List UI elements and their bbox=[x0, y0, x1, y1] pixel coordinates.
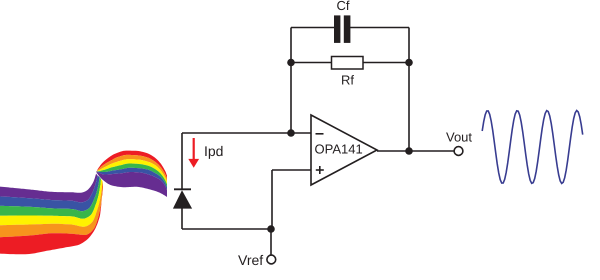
node junction output bbox=[405, 147, 413, 155]
svg-text:Ipd: Ipd bbox=[204, 143, 223, 159]
wire: feedback left vertical bbox=[290, 28, 292, 134]
wire: Rf row left bbox=[291, 62, 332, 64]
current arrow Ipd bbox=[188, 138, 199, 168]
rainbow lower band purple bbox=[0, 174, 98, 203]
terminal Vref open circle bbox=[267, 255, 276, 264]
capacitor C f plate left bbox=[334, 15, 340, 43]
wire: top rail left of Cf bbox=[291, 27, 335, 29]
rainbow lower band red bbox=[0, 184, 103, 254]
wire: output bbox=[377, 150, 454, 152]
node junction bottom bbox=[267, 225, 275, 233]
wire: plus input vertical bbox=[271, 170, 273, 229]
svg-text:Rf: Rf bbox=[341, 73, 354, 88]
resistor Rf bbox=[332, 57, 364, 70]
wire: plus input horizontal bbox=[272, 169, 311, 171]
svg-text:Cf: Cf bbox=[337, 0, 350, 13]
op-amp U1 OPA141 bbox=[311, 115, 377, 185]
rainbow light beam bbox=[0, 151, 167, 255]
rainbow lower band blue bbox=[0, 176, 100, 212]
rainbow upper band red bbox=[97, 151, 168, 179]
node junction minus input bbox=[287, 129, 295, 137]
rainbow upper band purple bbox=[96, 172, 167, 198]
wire: right vertical bbox=[408, 28, 410, 152]
op-amp plus sign bbox=[316, 169, 324, 171]
wire: minus input horizontal bbox=[182, 132, 311, 134]
wire: top rail right of Cf bbox=[350, 27, 409, 29]
wire: bottom horizontal bbox=[182, 228, 271, 230]
rainbow lower band yellow bbox=[0, 179, 103, 227]
op-amp minus sign bbox=[316, 133, 324, 135]
rainbow upper band orange bbox=[97, 155, 168, 182]
rainbow lower band orange bbox=[0, 181, 103, 237]
wire: Rf row right bbox=[363, 62, 409, 64]
capacitor Cf plate right bbox=[344, 15, 351, 43]
wire: photodiode bottom bbox=[181, 208, 183, 229]
node junction right of Rf bbox=[405, 59, 413, 67]
svg-text:Vout: Vout bbox=[446, 130, 472, 145]
svg-text:Vref: Vref bbox=[238, 252, 263, 268]
rainbow lower band green bbox=[0, 177, 101, 219]
wire: Vref stub bbox=[270, 229, 272, 255]
svg-text:OPA141: OPA141 bbox=[315, 142, 363, 157]
photodiode D1 triangle bbox=[173, 190, 192, 208]
node junction left of Rf bbox=[287, 59, 295, 67]
photodiode D1 cathode bar bbox=[174, 188, 191, 190]
wire: photodiode top bbox=[181, 133, 183, 190]
sine wave output signal bbox=[482, 111, 583, 184]
rainbow upper band green bbox=[97, 164, 168, 188]
rainbow upper band blue bbox=[97, 168, 168, 190]
rainbow upper band yellow bbox=[97, 159, 168, 184]
terminal Vout open circle bbox=[454, 147, 463, 156]
